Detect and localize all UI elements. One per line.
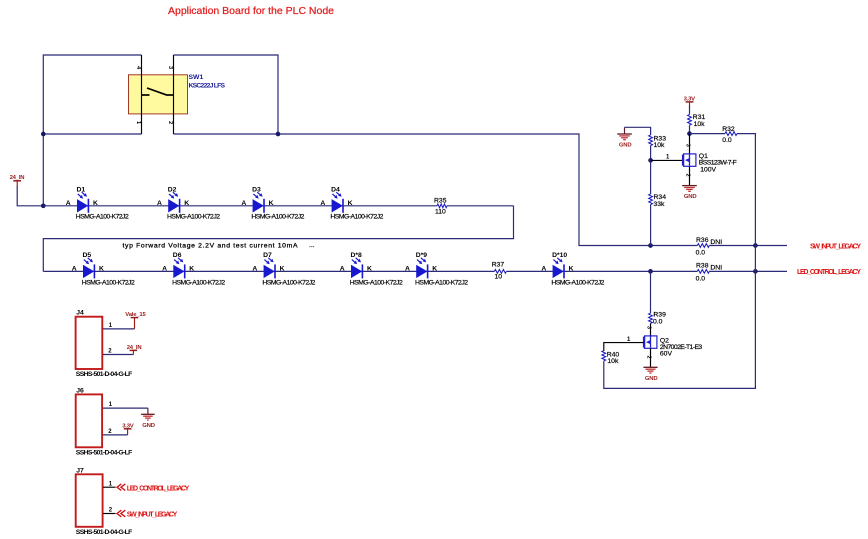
svg-text:D6: D6 xyxy=(173,252,182,259)
transistor Q2 xyxy=(644,336,657,348)
J7 pin 1 wire xyxy=(103,481,115,487)
junction right loop xyxy=(276,132,281,137)
power flag 24_IN xyxy=(10,175,25,186)
LED D5 xyxy=(72,252,135,286)
svg-text:A: A xyxy=(252,266,257,273)
Q2 labels xyxy=(660,338,703,358)
svg-text:3.3V: 3.3V xyxy=(122,423,134,429)
Q2 gate wire xyxy=(604,343,644,351)
svg-text:A: A xyxy=(66,200,71,207)
svg-text:24_IN: 24_IN xyxy=(127,345,142,351)
svg-text:D7: D7 xyxy=(263,252,272,259)
junction right rail SW row xyxy=(753,243,758,248)
svg-text:100V: 100V xyxy=(700,166,716,173)
svg-text:A: A xyxy=(72,266,77,273)
SW1 labels xyxy=(189,74,226,90)
junction right rail LED row xyxy=(753,269,758,274)
wire SW1 pin2 to SW_INPUT net corner xyxy=(174,134,651,246)
LED D6 xyxy=(162,252,225,286)
svg-text:0.0: 0.0 xyxy=(696,249,706,256)
resistor R35 110 xyxy=(434,197,447,215)
svg-text:LED_CONTROL_LEGACY: LED_CONTROL_LEGACY xyxy=(797,269,861,276)
wire R31 to drain node xyxy=(689,125,691,133)
power flag 3.3V xyxy=(684,96,696,107)
wire SW1 pin4 loop to node A xyxy=(43,55,141,134)
ground flag near R33 xyxy=(617,127,632,148)
wire SW1 pin1 to node A xyxy=(43,134,141,206)
svg-text:GND: GND xyxy=(619,143,632,149)
svg-text:0.0: 0.0 xyxy=(696,275,706,282)
junction R39 to LED row xyxy=(648,269,653,274)
svg-text:10k: 10k xyxy=(694,121,706,128)
ground flag J6 xyxy=(141,408,155,429)
wire row1 return to row2 xyxy=(43,206,513,272)
svg-text:SSHS-501-D-04-G-LF: SSHS-501-D-04-G-LF xyxy=(76,450,133,457)
svg-text:LED_CONTROL_LEGACY: LED_CONTROL_LEGACY xyxy=(127,485,190,492)
wire SW1 pin3 loop xyxy=(174,55,279,134)
wire LED row 1 xyxy=(43,205,513,207)
J7 pin 2 wire xyxy=(103,508,115,514)
svg-text:R35: R35 xyxy=(434,197,447,204)
svg-text:110: 110 xyxy=(435,209,446,216)
svg-text:K: K xyxy=(93,200,98,207)
connector J4 xyxy=(76,310,133,379)
svg-text:A: A xyxy=(320,200,325,207)
svg-text:K: K xyxy=(432,266,437,273)
svg-text:R36: R36 xyxy=(696,237,709,244)
svg-text:typ Forward Voltage 2.2V and t: typ Forward Voltage 2.2V and test curren… xyxy=(123,243,298,250)
svg-text:HSMG-A100-K72J2: HSMG-A100-K72J2 xyxy=(172,279,225,286)
svg-text:10k: 10k xyxy=(654,142,666,149)
connector J7 xyxy=(76,467,133,536)
wire GND to R33 xyxy=(625,127,651,135)
wire R39 to Q2 drain xyxy=(650,323,652,336)
svg-text:...: ... xyxy=(309,242,315,249)
junction left loop xyxy=(41,132,46,137)
svg-text:K: K xyxy=(280,266,285,273)
junction R34 to SW row xyxy=(648,243,653,248)
ground Q2 source xyxy=(643,367,657,382)
LED D3 xyxy=(241,187,304,221)
svg-text:2: 2 xyxy=(684,174,690,177)
svg-text:SSHS-501-D-04-G-LF: SSHS-501-D-04-G-LF xyxy=(76,371,133,378)
svg-text:Application Board for the PLC: Application Board for the PLC Node xyxy=(168,5,334,17)
LED D7 xyxy=(252,252,315,286)
svg-text:D5: D5 xyxy=(83,252,92,259)
LED D*10 xyxy=(541,252,604,286)
svg-text:K: K xyxy=(184,200,189,207)
svg-text:3: 3 xyxy=(167,66,173,69)
wire Q2 source to ground xyxy=(650,348,652,367)
svg-text:GND: GND xyxy=(645,376,658,382)
resistor R32 0.0 xyxy=(722,126,737,144)
svg-text:KSC222J LFS: KSC222J LFS xyxy=(189,83,226,90)
svg-text:33k: 33k xyxy=(654,201,666,208)
wire R40 to bottom rail xyxy=(604,271,756,388)
svg-text:1: 1 xyxy=(135,121,141,124)
J4 pin 2 wire xyxy=(103,349,133,355)
resistor R38 DNI xyxy=(696,263,723,283)
junction node A xyxy=(41,203,46,208)
power flag Vale_15 xyxy=(125,312,146,329)
svg-text:D4: D4 xyxy=(331,187,340,194)
wire R33 to gate node xyxy=(650,146,652,161)
svg-text:J6: J6 xyxy=(76,387,84,394)
resistor R33 10k xyxy=(649,135,666,149)
svg-text:DNI: DNI xyxy=(710,239,722,246)
connector J6 xyxy=(76,387,133,456)
svg-text:D3: D3 xyxy=(252,187,261,194)
off-page connector SW_INPUT_LEGACY xyxy=(117,510,178,519)
svg-text:R37: R37 xyxy=(492,261,505,268)
resistor R40 10k xyxy=(602,351,619,366)
svg-text:HSMG-A100-K72J2: HSMG-A100-K72J2 xyxy=(330,214,383,221)
svg-text:K: K xyxy=(367,266,372,273)
svg-text:10: 10 xyxy=(495,274,503,281)
svg-text:K: K xyxy=(348,200,353,207)
svg-text:0.0: 0.0 xyxy=(722,137,732,144)
wire LED row to R39 xyxy=(650,271,652,313)
svg-text:A: A xyxy=(157,200,162,207)
svg-text:SW_INPUT_LEGACY: SW_INPUT_LEGACY xyxy=(810,243,861,250)
svg-text:HSMG-A100-K72J2: HSMG-A100-K72J2 xyxy=(415,279,468,286)
svg-text:HSMG-A100-K72J2: HSMG-A100-K72J2 xyxy=(551,279,604,286)
svg-text:0.0: 0.0 xyxy=(653,319,663,326)
J6 pin 2 wire xyxy=(103,429,128,435)
junction gate node Q1 xyxy=(648,158,653,163)
svg-text:SW_INPUT_LEGACY: SW_INPUT_LEGACY xyxy=(127,512,178,519)
LED D*8 xyxy=(340,252,403,286)
ground Q1 source xyxy=(682,186,697,201)
svg-text:D1: D1 xyxy=(77,187,86,194)
svg-text:R32: R32 xyxy=(722,126,735,133)
power flag 3.3V J6 xyxy=(122,423,134,435)
svg-text:HSMG-A100-K72J2: HSMG-A100-K72J2 xyxy=(251,214,304,221)
resistor R36 DNI xyxy=(696,237,723,256)
resistor R37 10 xyxy=(492,261,507,280)
svg-text:Vale_15: Vale_15 xyxy=(125,312,146,318)
LED D2 xyxy=(157,187,220,221)
LED D4 xyxy=(320,187,383,221)
wire right rail middle xyxy=(754,246,756,272)
svg-text:J7: J7 xyxy=(76,467,84,474)
svg-text:3: 3 xyxy=(645,326,651,329)
wire LED row 2 xyxy=(43,270,650,272)
wire 3.3V to R31 xyxy=(689,106,691,115)
Q1 labels xyxy=(699,153,737,173)
svg-text:J4: J4 xyxy=(76,310,84,317)
svg-text:3.3V: 3.3V xyxy=(684,96,696,102)
svg-text:R31: R31 xyxy=(693,114,706,121)
svg-text:R38: R38 xyxy=(696,263,709,270)
svg-text:GND: GND xyxy=(142,423,155,429)
svg-text:DNI: DNI xyxy=(710,264,722,271)
svg-text:HSMG-A100-K72J2: HSMG-A100-K72J2 xyxy=(82,279,135,286)
svg-text:K: K xyxy=(569,266,574,273)
svg-text:2: 2 xyxy=(167,121,173,124)
svg-text:HSMG-A100-K72J2: HSMG-A100-K72J2 xyxy=(262,279,315,286)
wire drain node to R32 xyxy=(690,133,726,135)
svg-text:HSMG-A100-K72J2: HSMG-A100-K72J2 xyxy=(167,214,220,221)
wire 24_IN to node A xyxy=(17,186,43,206)
resistor R34 33k xyxy=(649,160,666,245)
svg-text:A: A xyxy=(340,266,345,273)
power flag 24_IN J4 xyxy=(127,345,142,355)
J6 pin 1 wire xyxy=(103,402,148,408)
resistor R31 10k xyxy=(688,114,706,128)
LED D*9 xyxy=(405,252,468,286)
svg-text:K: K xyxy=(99,266,104,273)
junction drain node Q1 xyxy=(687,131,692,136)
svg-text:HSMG-A100-K72J2: HSMG-A100-K72J2 xyxy=(350,279,403,286)
svg-text:SSHS-501-D-04-G-LF: SSHS-501-D-04-G-LF xyxy=(76,529,133,536)
resistor R39 0.0 xyxy=(649,312,666,326)
svg-text:D*9: D*9 xyxy=(416,252,428,259)
wire SW_INPUT_LEGACY row xyxy=(651,245,788,247)
svg-text:A: A xyxy=(405,266,410,273)
switch SW1 xyxy=(129,55,188,134)
off-page connector LED_CONTROL_LEGACY xyxy=(117,484,190,493)
svg-text:A: A xyxy=(162,266,167,273)
svg-text:10k: 10k xyxy=(607,358,619,365)
J4 pin 1 wire xyxy=(103,323,135,329)
transistor Q1 xyxy=(683,154,696,166)
svg-text:3: 3 xyxy=(684,144,690,147)
svg-text:A: A xyxy=(241,200,246,207)
svg-text:D*8: D*8 xyxy=(351,252,363,259)
svg-text:K: K xyxy=(189,266,194,273)
note text xyxy=(123,242,315,250)
svg-text:SW1: SW1 xyxy=(189,74,204,81)
svg-text:HSMG-A100-K72J2: HSMG-A100-K72J2 xyxy=(76,214,129,221)
svg-text:GND: GND xyxy=(684,194,697,200)
svg-text:A: A xyxy=(541,266,546,273)
LED D1 xyxy=(66,187,129,221)
wire gate node to Q1 gate xyxy=(651,159,683,161)
svg-text:K: K xyxy=(269,200,274,207)
transistor Q1 drain lead xyxy=(689,134,691,154)
wire LED_CONTROL_LEGACY row xyxy=(651,270,788,272)
svg-text:D*10: D*10 xyxy=(552,252,567,259)
svg-text:60V: 60V xyxy=(660,350,673,357)
svg-text:D2: D2 xyxy=(168,187,177,194)
svg-text:R34: R34 xyxy=(654,194,667,201)
svg-text:24_IN: 24_IN xyxy=(10,175,25,181)
transistor Q1 source lead xyxy=(689,166,691,185)
wire R32 to right rail xyxy=(737,134,755,246)
